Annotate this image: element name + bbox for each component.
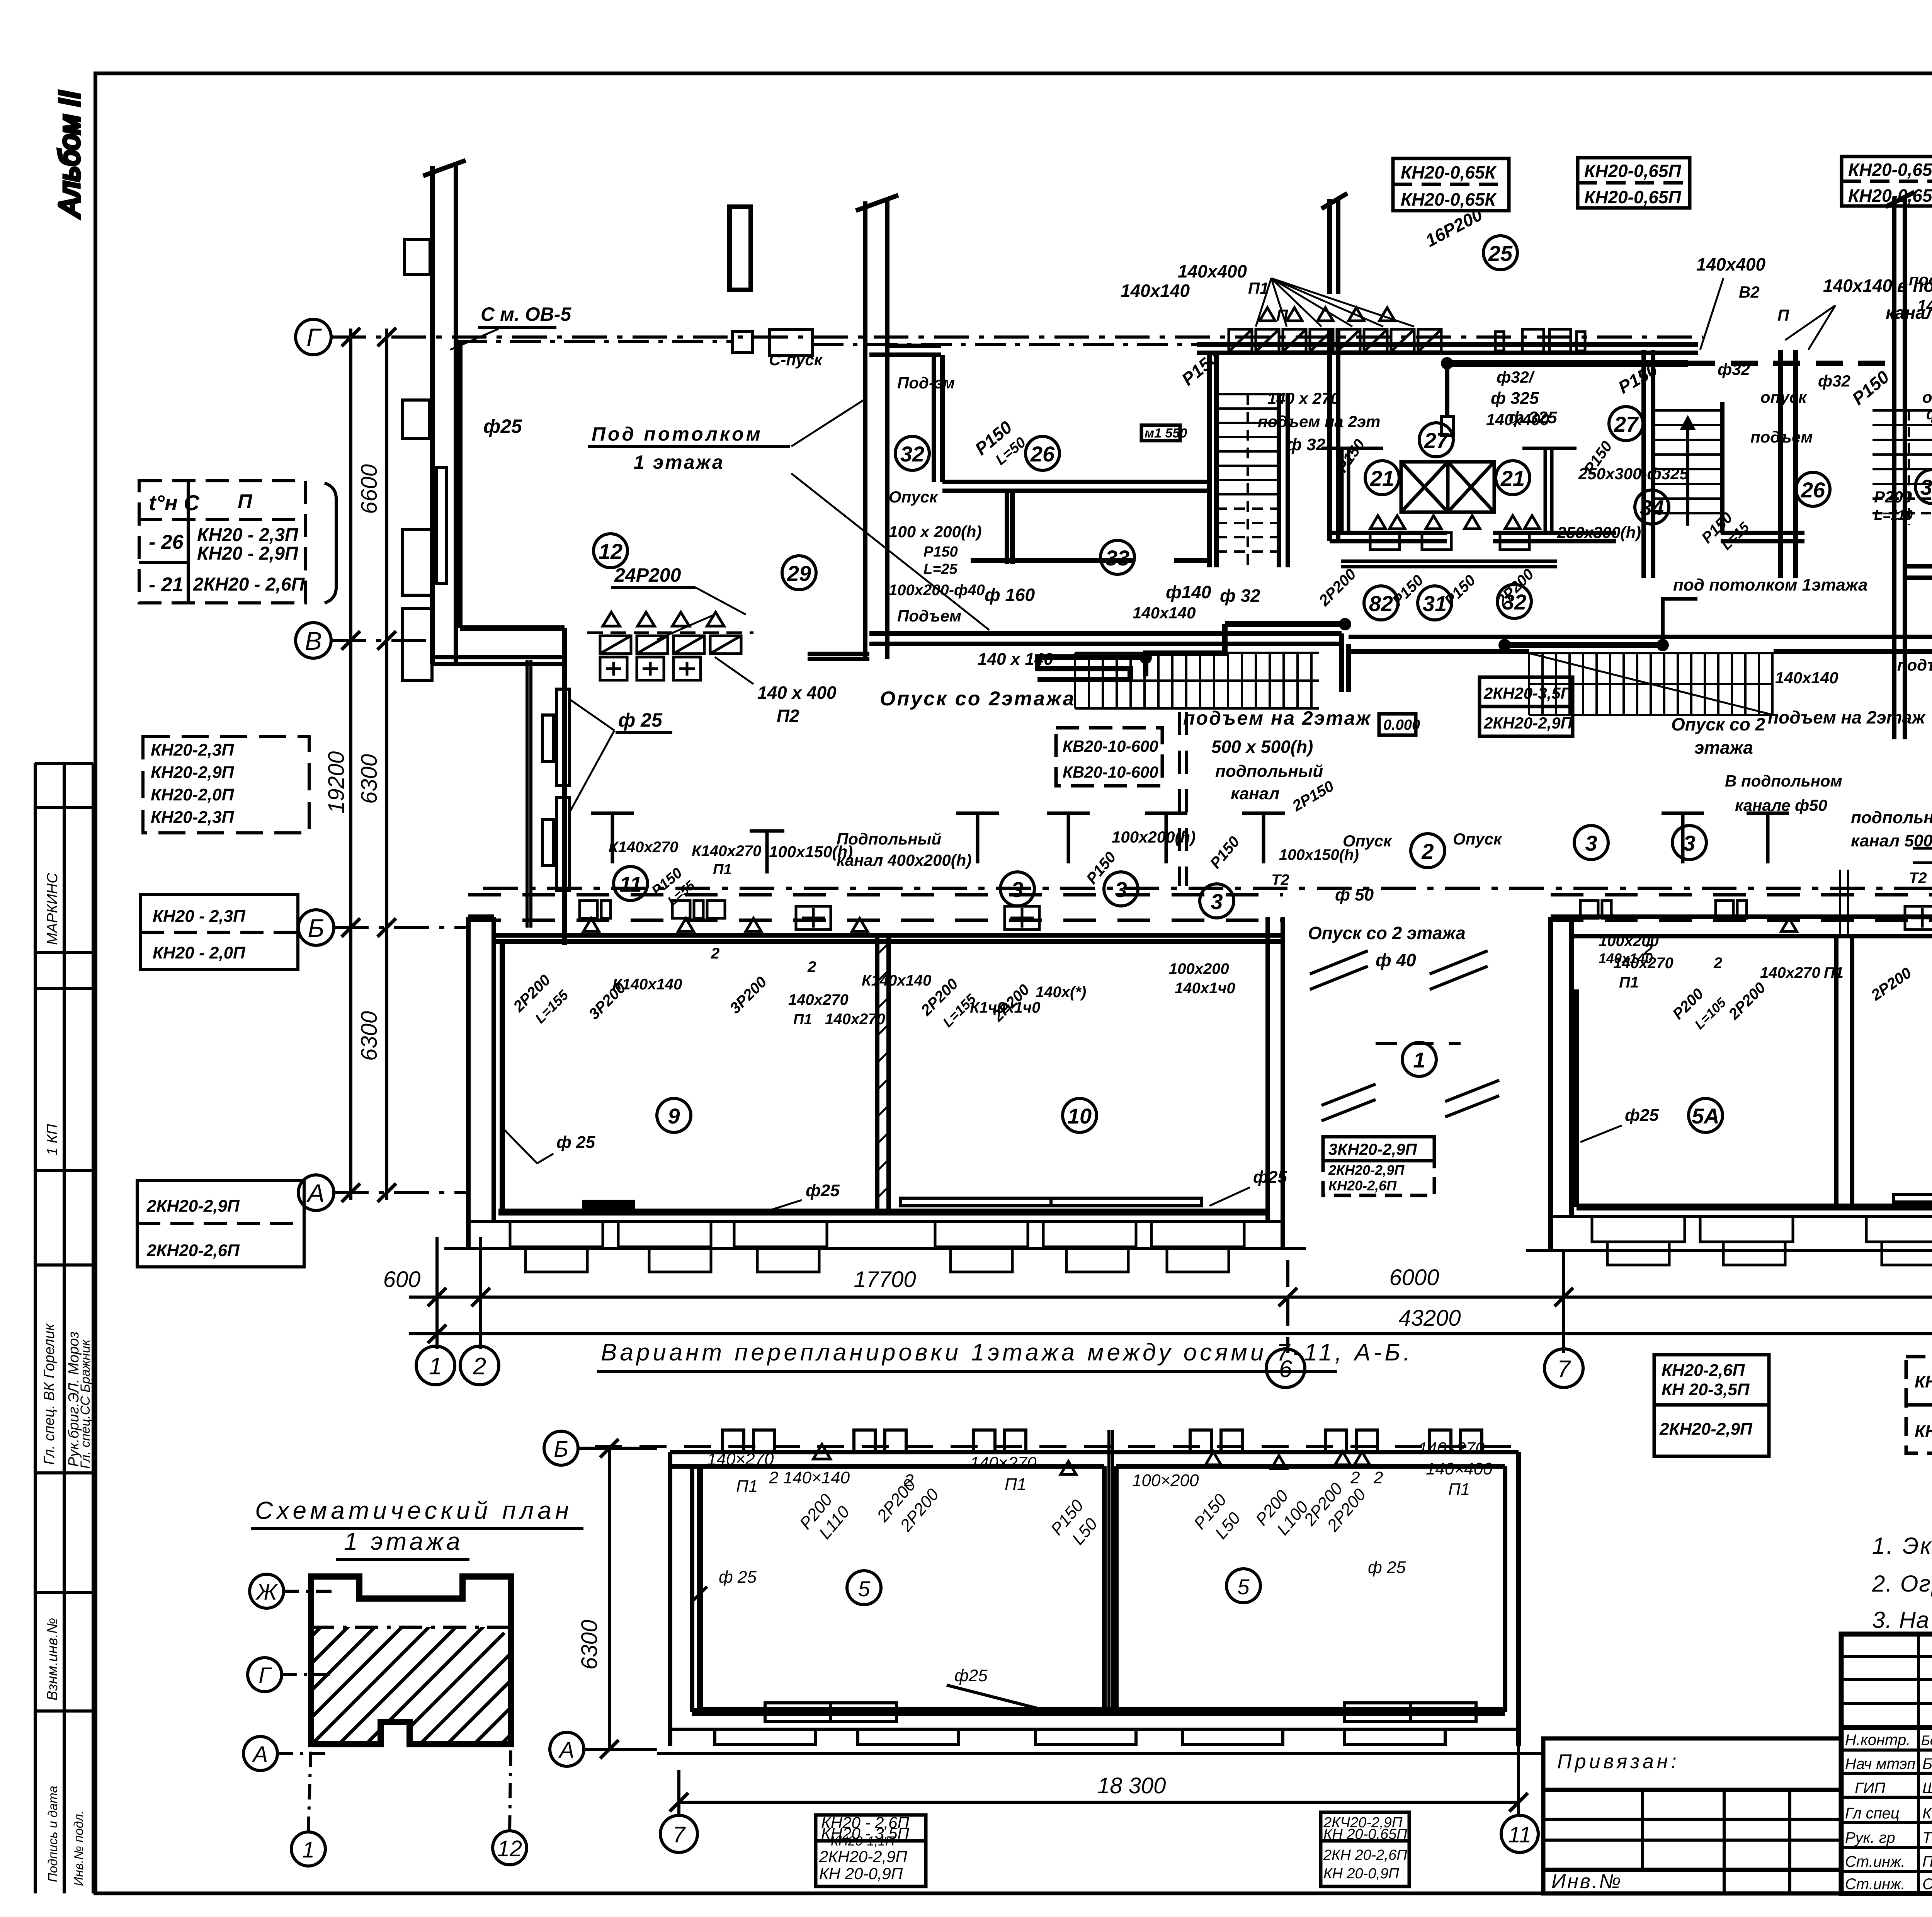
T2 dash-dot long line (483, 887, 1909, 890)
svg-text:КН20-2,0П: КН20-2,0П (151, 785, 235, 804)
bottom row label boxes (1654, 1355, 1932, 1456)
svg-text:2: 2 (1713, 955, 1722, 972)
vent triangles (813, 1444, 1370, 1474)
svg-text:34: 34 (1640, 495, 1664, 520)
svg-text:140×270: 140×270 (1418, 1439, 1485, 1458)
rows above (1841, 1655, 1932, 1658)
svg-text:П1: П1 (1619, 974, 1639, 991)
svg-text:ф 325: ф 325 (1509, 408, 1557, 427)
svg-text:18 300: 18 300 (1097, 1773, 1166, 1798)
svg-text:ф20: ф20 (1926, 405, 1932, 423)
G_PLAN (403, 160, 1932, 1272)
bottom dim lines (409, 1296, 1932, 1299)
svg-text:0.000: 0.000 (1383, 717, 1420, 733)
svg-text:2. Ограждение нагревательных: 2. Ограждение нагревательных приборов см… (1872, 1571, 1932, 1597)
svg-text:В подпольном: В подпольном (1725, 772, 1842, 790)
svg-text:КН20-2,6П: КН20-2,6П (1328, 1178, 1397, 1193)
svg-text:Под потолком: Под потолком (592, 423, 763, 445)
underfloor channel dashed pair (468, 893, 1283, 897)
svg-text:2: 2 (1421, 839, 1434, 863)
svg-text:3: 3 (1115, 877, 1127, 902)
pillar above axis G (730, 207, 751, 290)
middle annotations (769, 203, 1932, 758)
plan outline (311, 1577, 511, 1744)
svg-text:Н.контр.: Н.контр. (1845, 1731, 1910, 1748)
svg-text:1 КП: 1 КП (44, 1124, 61, 1156)
svg-text:2: 2 (1373, 1468, 1383, 1487)
vent boxes row on H2 wall (1229, 308, 1585, 352)
svg-text:27: 27 (1424, 428, 1449, 453)
svg-text:2: 2 (807, 958, 816, 976)
fan leader lines from 140x400 (1256, 278, 1835, 350)
svg-text:ф 25: ф 25 (618, 709, 663, 731)
svg-text:К140х270: К140х270 (609, 839, 678, 856)
svg-text:Опуск: Опуск (1343, 832, 1392, 850)
tall wall V5 right of stairs (1327, 329, 1332, 541)
svg-text:под потолком 1этажа: под потолком 1этажа (1673, 575, 1867, 594)
svg-text:подъем на 2эт: подъем на 2эт (1258, 412, 1380, 431)
svg-text:140х270: 140х270 (1760, 964, 1820, 981)
window wall bottom 5x (1577, 1204, 1932, 1210)
svg-text:100х200-ф40: 100х200-ф40 (889, 582, 985, 599)
svg-text:6300: 6300 (357, 1011, 382, 1061)
svg-text:ф 25: ф 25 (719, 1568, 757, 1587)
svg-text:3КН20-2,9П: 3КН20-2,9П (1328, 1140, 1417, 1158)
svg-text:Рук. гр: Рук. гр (1845, 1829, 1895, 1846)
svg-text:6000: 6000 (1389, 1265, 1439, 1290)
svg-text:ф140: ф140 (1166, 582, 1211, 602)
svg-text:КН20-0,65К: КН20-0,65К (1401, 162, 1497, 182)
svg-text:КН20-2 0 П: КН20-2 0 П (1915, 1422, 1932, 1441)
svg-text:21: 21 (1370, 466, 1394, 490)
svg-text:ф32: ф32 (1718, 360, 1750, 378)
svg-text:Ж: Ж (255, 1580, 278, 1605)
svg-text:29: 29 (787, 561, 811, 586)
signature table columns (1917, 1634, 1920, 1893)
radiator ticks on window wall (583, 1201, 634, 1212)
svg-text:9: 9 (668, 1104, 680, 1128)
svg-text:24Р200: 24Р200 (614, 564, 681, 586)
G_LABELS (137, 153, 1932, 1456)
svg-text:100 х 200(h): 100 х 200(h) (889, 523, 981, 541)
axis circles (243, 1574, 527, 1866)
extension verticals (435, 1237, 439, 1349)
svg-text:ф25: ф25 (806, 1181, 840, 1200)
svg-text:Ст.инж.: Ст.инж. (1845, 1876, 1905, 1893)
svg-text:500 х 500(h): 500 х 500(h) (1211, 737, 1313, 757)
svg-text:КН 20-3,5П: КН 20-3,5П (1662, 1380, 1750, 1399)
top right see-texts (481, 153, 1932, 325)
svg-text:П1: П1 (1824, 964, 1844, 981)
svg-text:КН20-0,65П: КН20-0,65П (1584, 187, 1682, 207)
svg-text:П1: П1 (793, 1011, 812, 1028)
title (601, 1339, 1413, 1366)
svg-text:11: 11 (1508, 1822, 1531, 1847)
svg-text:ф25: ф25 (1253, 1168, 1287, 1187)
svg-text:140×270: 140×270 (970, 1454, 1037, 1473)
svg-text:ф32/: ф32/ (1497, 368, 1535, 386)
svg-text:К140х140: К140х140 (612, 976, 682, 993)
6300 dim (608, 1448, 611, 1749)
svg-text:21: 21 (1500, 466, 1525, 490)
south wall middle wing (1349, 635, 1932, 639)
svg-text:П1: П1 (713, 861, 731, 878)
svg-text:140 х 140: 140 х 140 (978, 650, 1053, 669)
svg-text:Подпись и дата: Подпись и дата (46, 1786, 60, 1882)
svg-text:Альбом II: Альбом II (53, 91, 85, 218)
svg-text:ф 325: ф 325 (1491, 389, 1539, 408)
svg-text:27: 27 (1614, 412, 1639, 436)
svg-text:3: 3 (1585, 831, 1597, 855)
svg-text:ф 25: ф 25 (556, 1133, 595, 1152)
wall between 32 and 26 (932, 355, 936, 482)
second stair right (1872, 410, 1932, 525)
svg-text:1: 1 (429, 1353, 442, 1380)
svg-text:канал 500х300(h): канал 500х300(h) (1851, 831, 1932, 850)
stair treads (left stairwell) (1216, 394, 1279, 567)
svg-text:Кукареко: Кукареко (1922, 1805, 1932, 1822)
G_TITLEBLOCK (1543, 1533, 1932, 1894)
svg-text:Гл. спец. ВК Горелик: Гл. спец. ВК Горелик (41, 1323, 58, 1465)
svg-text:140х400: 140х400 (1696, 254, 1765, 274)
svg-text:П1: П1 (1448, 1480, 1470, 1499)
axis G wall segments (887, 344, 941, 348)
window boxes on left wall outside (403, 400, 430, 439)
svg-text:ф 32: ф 32 (1220, 586, 1260, 606)
svg-text:Схематический план: Схематический план (255, 1496, 573, 1524)
middle label boxes (1056, 425, 1573, 1195)
G_STAMP (35, 91, 93, 1893)
svg-text:Старостенко: Старостенко (1922, 1876, 1932, 1893)
svg-text:КН20-0,65П: КН20-0,65П (1584, 161, 1682, 181)
top row label boxes (1393, 157, 1932, 211)
svg-text:Б: Б (308, 914, 325, 942)
svg-text:140х270: 140х270 (788, 991, 849, 1008)
room 33 inner divider (1005, 491, 1009, 564)
svg-text:подъем на 2этаж: подъем на 2этаж (1183, 707, 1371, 729)
svg-text:140х1ч0: 140х1ч0 (1175, 980, 1235, 997)
room circles (847, 1569, 1260, 1605)
svg-text:КН 20-0,65П: КН 20-0,65П (1323, 1826, 1407, 1842)
svg-text:t°н С: t°н С (149, 490, 200, 515)
svg-text:П2: П2 (777, 706, 799, 726)
svg-text:опуск: опуск (1922, 388, 1932, 406)
svg-text:П: П (1276, 306, 1288, 324)
svg-text:П1: П1 (736, 1477, 758, 1496)
svg-text:А: А (306, 1179, 325, 1207)
svg-text:Т2: Т2 (1271, 872, 1289, 889)
svg-text:2: 2 (711, 945, 719, 962)
svg-text:140 х 270: 140 х 270 (1267, 389, 1340, 407)
stairwell right rail (1277, 393, 1281, 567)
svg-text:140х140 в подпольном: 140х140 в подпольном (1823, 276, 1932, 296)
svg-text:82: 82 (1369, 591, 1393, 616)
svg-text:5А: 5А (1692, 1104, 1719, 1128)
svg-text:2КН20-2,9П: 2КН20-2,9П (1659, 1420, 1753, 1439)
svg-text:К140х270: К140х270 (692, 843, 761, 860)
svg-text:П1: П1 (1005, 1475, 1026, 1494)
classroom 9/10 annotations (510, 839, 1287, 1200)
axis circles (544, 1431, 1538, 1852)
corridor walls around middle (1330, 533, 1932, 652)
dashed corridor line above (595, 1445, 1519, 1448)
svg-text:подпольный: подпольный (1215, 762, 1323, 781)
svg-text:С м. ОВ-5: С м. ОВ-5 (481, 303, 571, 325)
svg-text:6600: 6600 (357, 464, 382, 514)
vent clusters on top wall 9/10 (580, 901, 1039, 931)
svg-text:6300: 6300 (577, 1620, 602, 1670)
left axis circles (296, 319, 334, 1210)
svg-text:L=25: L=25 (923, 561, 958, 577)
svg-text:140×270: 140×270 (707, 1450, 774, 1469)
svg-text:2: 2 (1350, 1468, 1360, 1487)
right side channel dashed (1913, 847, 1932, 850)
svg-text:ф 25: ф 25 (1368, 1558, 1406, 1577)
svg-text:26: 26 (1801, 478, 1825, 502)
svg-text:1 этажа: 1 этажа (634, 451, 724, 473)
svg-text:м1 550: м1 550 (1145, 426, 1187, 441)
main wall x4902 (1892, 198, 1896, 739)
svg-text:ф25: ф25 (1625, 1106, 1659, 1125)
G_VARIANT (544, 1339, 1542, 1886)
svg-text:2КН 20-2,6П: 2КН 20-2,6П (1323, 1847, 1407, 1863)
svg-text:Под-эм: Под-эм (897, 374, 955, 392)
left outer wall of rooms 12/29 (430, 166, 435, 664)
svg-text:100х200: 100х200 (1599, 933, 1659, 950)
entrance stair hatches (1529, 653, 1774, 715)
svg-text:А: А (558, 1738, 575, 1763)
svg-text:КН20-2,3П: КН20-2,3П (151, 741, 235, 759)
C-pusk device on axis G (733, 332, 752, 352)
svg-text:35: 35 (1920, 475, 1932, 499)
label boxes bottom (816, 1812, 1409, 1886)
svg-text:2КН20 - 2,6П: 2КН20 - 2,6П (193, 574, 305, 595)
window wall bottom 9/10 (498, 1209, 1268, 1216)
svg-text:140х400: 140х400 (1178, 261, 1247, 281)
svg-text:11: 11 (619, 872, 642, 896)
vent triangles under chamber (1370, 516, 1540, 550)
pipe (697, 1469, 703, 1710)
svg-text:Привязан:: Привязан: (1557, 1750, 1680, 1773)
radiator row under room 12 (587, 612, 753, 680)
privyazan box (1543, 1738, 1841, 1893)
svg-text:этажа: этажа (1694, 737, 1753, 758)
svg-text:ф 40: ф 40 (1376, 950, 1416, 970)
svg-text:ф25: ф25 (954, 1666, 988, 1685)
svg-text:32: 32 (900, 442, 924, 466)
svg-text:КН20-2,3П: КН20-2,3П (1915, 1372, 1932, 1391)
svg-text:КН20-2,9П: КН20-2,9П (151, 763, 235, 782)
upper-left annotations (483, 415, 837, 731)
svg-text:Беганская: Беганская (1922, 1755, 1932, 1772)
svg-text:Подъем: Подъем (897, 607, 961, 625)
svg-text:Нач мтэп: Нач мтэп (1845, 1755, 1915, 1772)
svg-text:Г: Г (306, 323, 322, 352)
svg-text:Взнм.инв.№: Взнм.инв.№ (44, 1618, 61, 1701)
svg-text:2КН20-2,6П: 2КН20-2,6П (146, 1241, 240, 1260)
svg-text:100х150(h): 100х150(h) (769, 843, 853, 861)
svg-text:100х200(h): 100х200(h) (1112, 828, 1196, 846)
svg-text:3. На плане указано количест: 3. На плане указано количество воздуха т… (1872, 1607, 1932, 1633)
svg-text:Р200: Р200 (1874, 488, 1912, 506)
svg-text:Гл спец: Гл спец (1845, 1805, 1900, 1822)
svg-text:А: А (252, 1742, 268, 1767)
classrooms 5x annotations (1599, 920, 1932, 1200)
svg-text:17700: 17700 (854, 1267, 916, 1292)
svg-text:43200: 43200 (1398, 1306, 1461, 1331)
svg-text:140×400: 140×400 (1426, 1459, 1493, 1478)
svg-text:Опуск со 2 этажа: Опуск со 2 этажа (1308, 923, 1466, 943)
thick pipe zigzag at bottom-left entrance (1037, 657, 1146, 679)
svg-text:подъем: подъем (1897, 656, 1932, 674)
bottom axis circles (416, 1346, 1932, 1388)
svg-text:- 21: - 21 (149, 574, 184, 596)
signature rows (1841, 1748, 1932, 1752)
G_SCHEMATIC (243, 1496, 612, 1896)
svg-text:подпольный: подпольный (1851, 808, 1932, 827)
svg-text:В2: В2 (1739, 283, 1760, 301)
svg-text:10: 10 (1068, 1104, 1092, 1128)
svg-text:Шелевиля: Шелевиля (1922, 1780, 1932, 1797)
svg-text:Полякова: Полякова (1922, 1853, 1932, 1870)
svg-text:140х270: 140х270 (825, 1011, 885, 1028)
svg-text:250х300-ф325: 250х300-ф325 (1578, 465, 1689, 483)
svg-text:140х140: 140х140 (1775, 669, 1838, 687)
svg-text:П: П (1777, 306, 1789, 324)
svg-text:Ст.инж.: Ст.инж. (1845, 1853, 1905, 1870)
svg-text:250х300(h): 250х300(h) (1557, 523, 1641, 541)
svg-text:ГИП: ГИП (1855, 1780, 1886, 1797)
svg-text:ф 50: ф 50 (1335, 885, 1374, 904)
svg-text:600: 600 (383, 1267, 421, 1292)
svg-text:канале: канале (1886, 303, 1932, 323)
south wall of left wing (869, 631, 1342, 636)
svg-text:3: 3 (1683, 831, 1695, 855)
room 33 top wall (942, 480, 1209, 484)
svg-text:канале ф50: канале ф50 (1735, 796, 1827, 814)
tall wall V2 (863, 201, 867, 659)
svg-text:КН20 - 2,9П: КН20 - 2,9П (197, 543, 299, 564)
svg-text:ф 160: ф 160 (985, 585, 1035, 605)
svg-text:Вариант перепланировки 1этаж: Вариант перепланировки 1этажа между осям… (601, 1339, 1413, 1366)
svg-text:L=110: L=110 (1874, 507, 1913, 523)
svg-text:канал: канал (1231, 784, 1279, 803)
svg-text:Г: Г (259, 1663, 272, 1688)
svg-text:ф 32: ф 32 (1287, 435, 1326, 454)
svg-text:3: 3 (1011, 877, 1023, 902)
svg-text:КН 20-0,9П: КН 20-0,9П (1323, 1866, 1399, 1882)
svg-text:3: 3 (1211, 889, 1223, 914)
room number circles (594, 236, 1932, 1136)
svg-text:КН20-2,3П: КН20-2,3П (151, 808, 235, 827)
svg-text:7: 7 (1557, 1356, 1571, 1382)
svg-text:Опуск со 2: Опуск со 2 (1671, 714, 1765, 734)
pipes in dividers (1839, 870, 1841, 936)
svg-text:подъем на 2этаж: подъем на 2этаж (1768, 707, 1926, 727)
axis dash-dot lines (331, 335, 1703, 339)
corridor area annotations (769, 448, 1932, 989)
svg-text:Опуск со 2этажа: Опуск со 2этажа (880, 688, 1076, 710)
svg-text:5: 5 (1237, 1575, 1250, 1599)
bottom window wall (692, 1708, 1505, 1716)
svg-text:6300: 6300 (357, 754, 382, 804)
svg-text:5: 5 (858, 1577, 870, 1601)
svg-text:С-пуск: С-пуск (769, 351, 823, 369)
svg-text:7: 7 (673, 1822, 686, 1847)
left label boxes (137, 736, 309, 1267)
svg-text:2КН20-2,9П: 2КН20-2,9П (1483, 714, 1573, 732)
svg-text:1 этажа: 1 этажа (344, 1527, 463, 1555)
svg-text:26: 26 (1030, 442, 1055, 466)
svg-text:33: 33 (1105, 546, 1129, 570)
svg-text:Р150: Р150 (923, 544, 958, 560)
thick supply pipe across middle (1447, 360, 1688, 367)
svg-text:100×200: 100×200 (1132, 1471, 1199, 1490)
svg-text:КН20-2,6П: КН20-2,6П (1662, 1361, 1745, 1380)
svg-text:канал 400х200(h): канал 400х200(h) (837, 851, 971, 869)
svg-text:КН20 - 2,3П: КН20 - 2,3П (197, 525, 299, 545)
annotations (707, 1439, 1493, 1685)
svg-text:2КН20-2,9П: 2КН20-2,9П (1328, 1162, 1405, 1178)
svg-text:19200: 19200 (324, 751, 349, 814)
notes (1872, 1533, 1932, 1633)
svg-text:Опуск: Опуск (889, 488, 938, 506)
bottom wall of block 12 (432, 655, 565, 659)
svg-text:1. Экспликацию помещений см.: 1. Экспликацию помещений см. лист ОВ-5. (1872, 1533, 1932, 1559)
svg-text:2КН20-3,5П: 2КН20-3,5П (1483, 684, 1573, 702)
svg-text:Инв.№ подл.: Инв.№ подл. (71, 1810, 86, 1886)
svg-text:140х140: 140х140 (1599, 950, 1653, 966)
walls (670, 1452, 1519, 1746)
svg-text:2КН20-2,9П: 2КН20-2,9П (819, 1847, 908, 1866)
G_AXES (296, 319, 1932, 1388)
svg-text:ф32: ф32 (1818, 372, 1850, 390)
svg-text:140 х 400: 140 х 400 (757, 683, 837, 703)
svg-text:- 26: - 26 (149, 531, 184, 553)
svg-text:КН20-1,1П: КН20-1,1П (831, 1834, 895, 1849)
svg-text:КН20-0,65П: КН20-0,65П (1848, 160, 1932, 180)
svg-text:Титова: Титова (1922, 1829, 1932, 1846)
vents on top wall (723, 1430, 1482, 1452)
dashed channel vertical center (1178, 712, 1181, 886)
svg-text:140х140: 140х140 (1133, 604, 1196, 622)
18300 dim (679, 1801, 1519, 1804)
svg-text:140х140: 140х140 (1121, 281, 1190, 301)
svg-text:1: 1 (1413, 1048, 1425, 1072)
svg-text:Гл. спец.СС Бражник: Гл. спец.СС Бражник (78, 1339, 93, 1469)
T-shaped partitions above corridor (kab 2/3 area) (591, 813, 1789, 873)
svg-text:П: П (238, 490, 253, 513)
bottom-left entrance stair hatch (1075, 653, 1319, 708)
svg-text:К140х140: К140х140 (862, 972, 931, 989)
svg-text:КН20 - 2,3П: КН20 - 2,3П (153, 907, 246, 926)
svg-text:2 140×140: 2 140×140 (769, 1468, 850, 1487)
svg-text:КН20-0,65К: КН20-0,65К (1401, 189, 1497, 209)
svg-text:КН20-0,65П: КН20-0,65П (1848, 186, 1932, 206)
svg-text:Т2: Т2 (1909, 870, 1927, 887)
svg-text:1: 1 (302, 1837, 315, 1863)
svg-text:опуск: опуск (1760, 388, 1807, 406)
svg-text:Белоцерковская: Белоцерковская (1921, 1733, 1932, 1748)
svg-text:МАРКИНС: МАРКИНС (44, 873, 61, 945)
svg-text:подъем: подъем (1750, 428, 1813, 446)
svg-text:ф25: ф25 (483, 415, 522, 437)
svg-text:140х(*): 140х(*) (1036, 984, 1086, 1001)
window sill marks (715, 1729, 815, 1745)
svg-text:25: 25 (1488, 241, 1513, 266)
main title block outer (1841, 1634, 1932, 1893)
t table (139, 481, 336, 603)
